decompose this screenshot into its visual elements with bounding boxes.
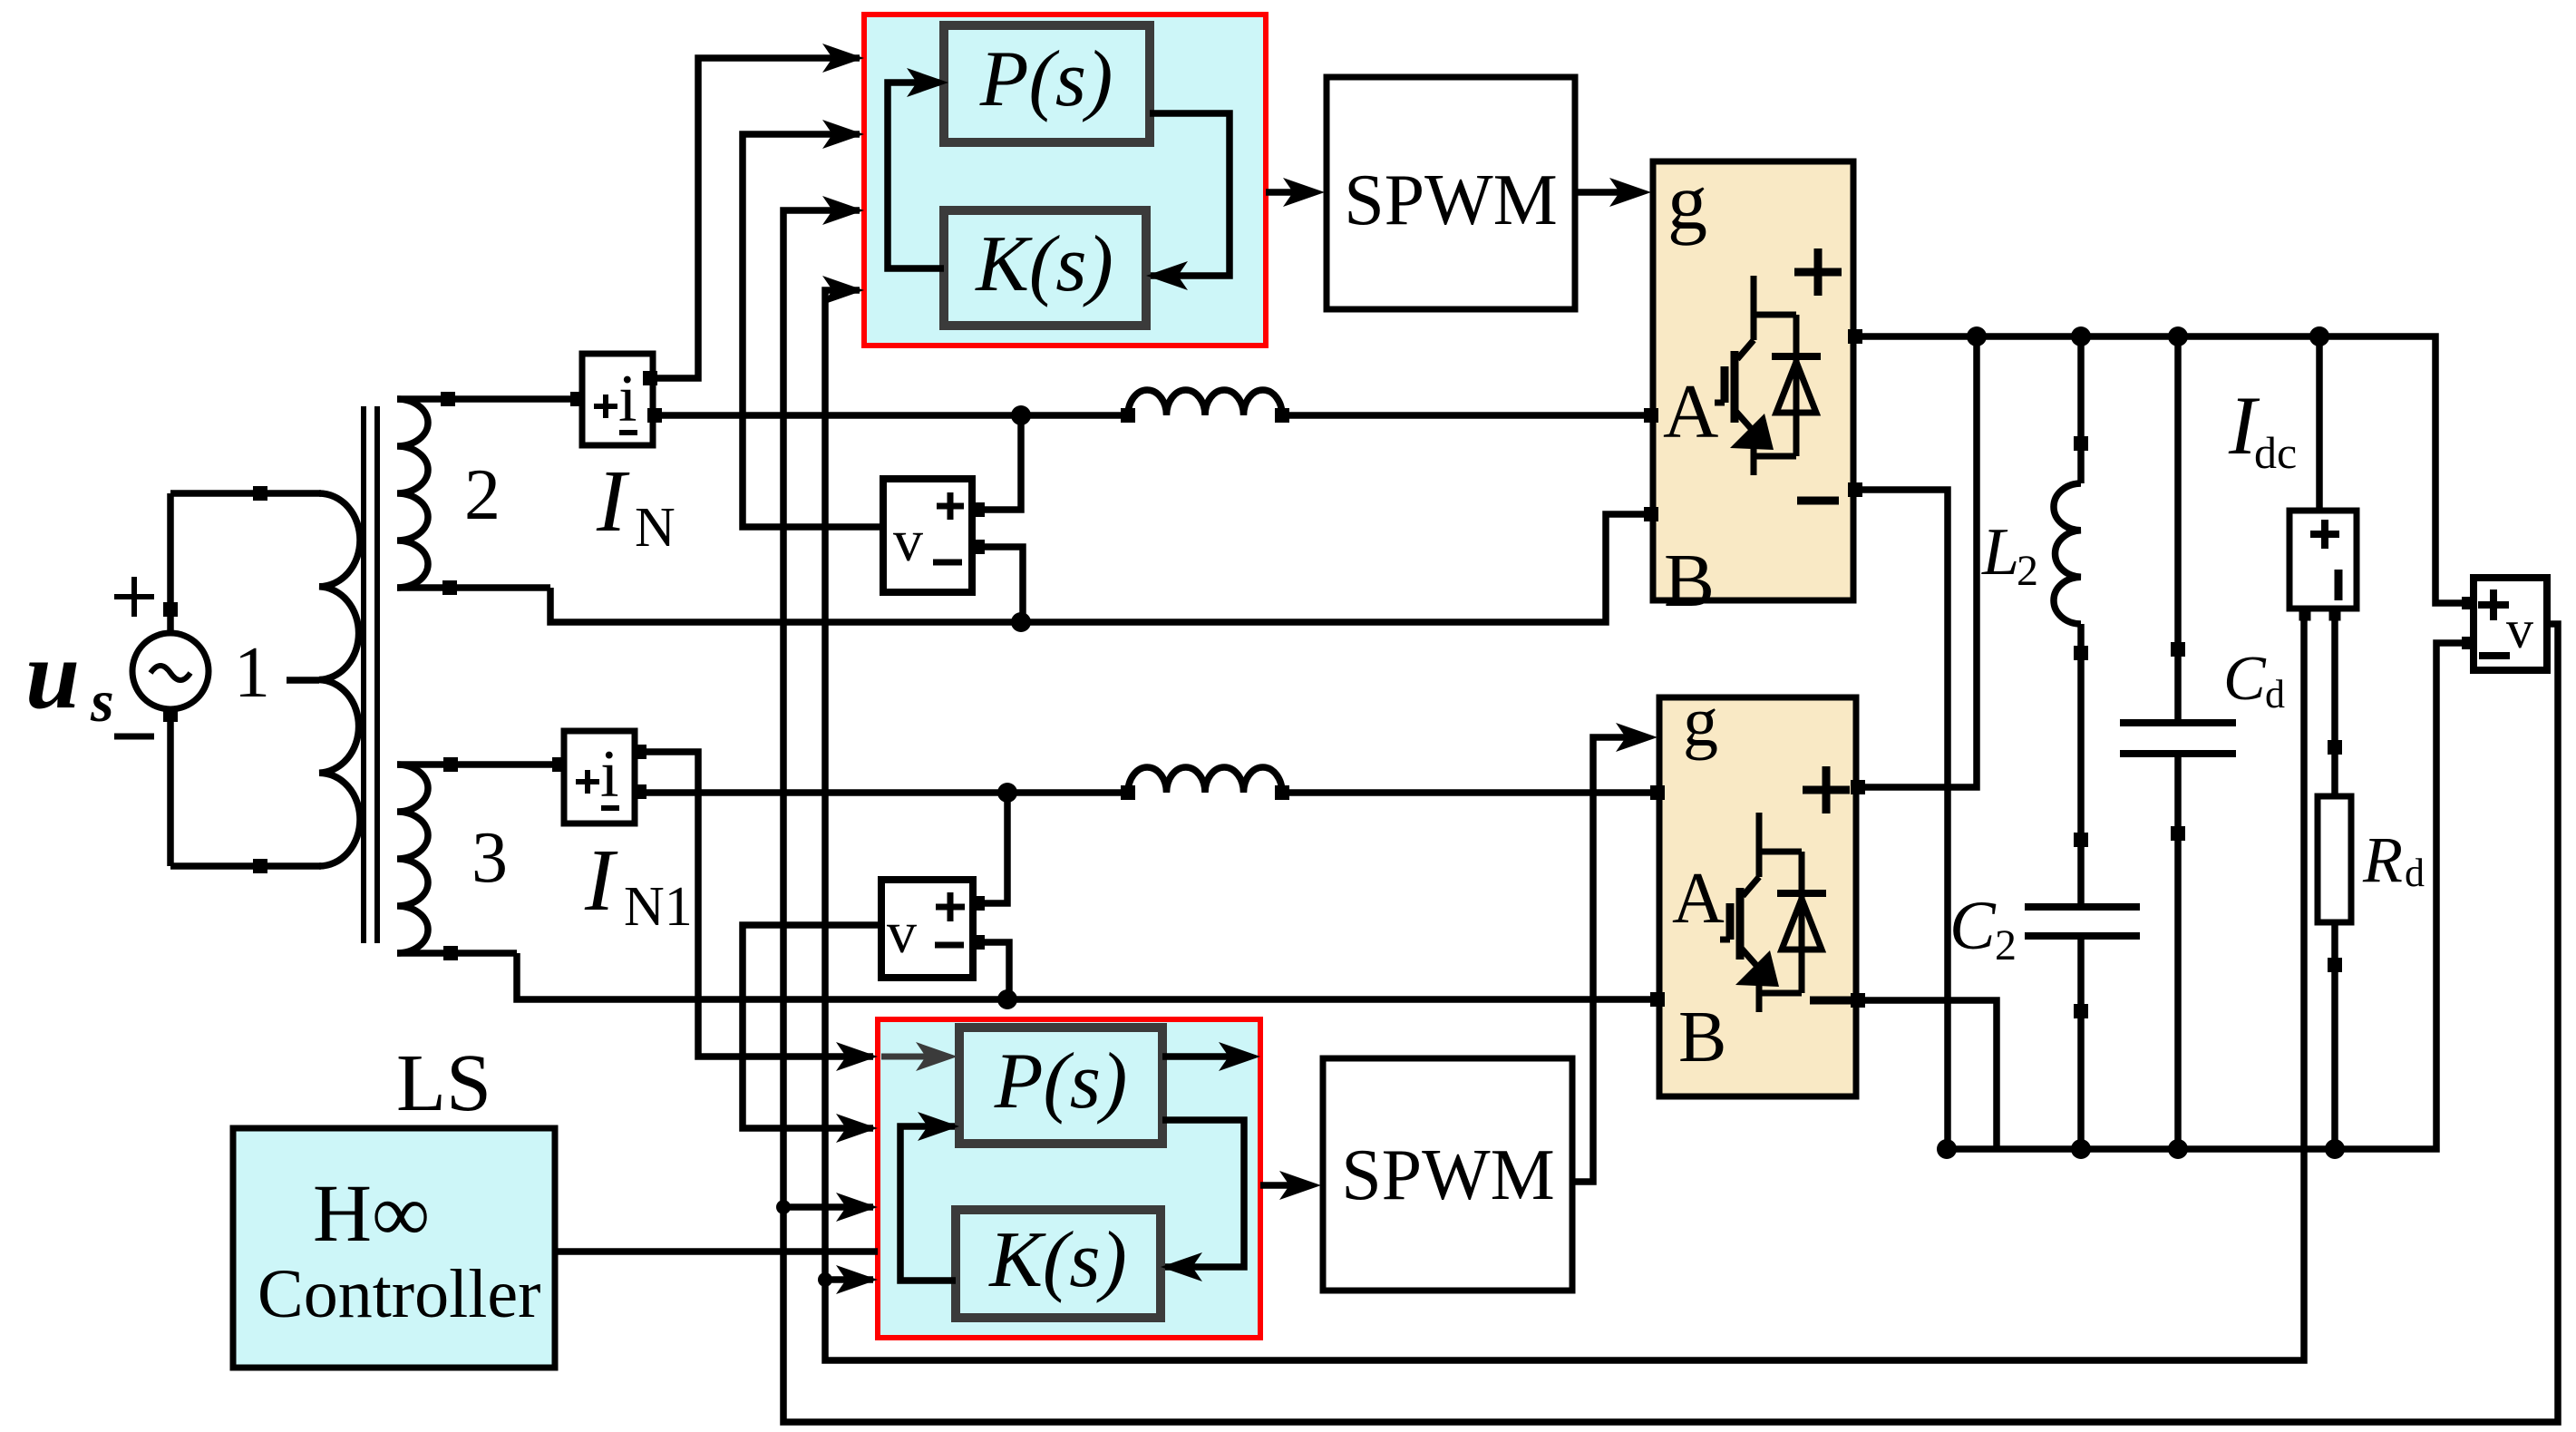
wire RS output to SPWM top — [1266, 189, 1313, 196]
arrowhead into K(s) top — [1146, 261, 1188, 290]
node Idc branch on plus bus — [2309, 326, 2329, 346]
pin square v2 plus — [970, 896, 985, 911]
voltage sensor v1 — [883, 479, 972, 592]
terminal square L1b left — [1121, 785, 1135, 800]
wire Rd bottom — [2331, 922, 2338, 1149]
wire C2 bottom — [2077, 936, 2085, 1149]
junction square winding3 bottom — [443, 946, 458, 960]
pin square vdc plus — [2462, 597, 2474, 609]
wire v1 minus tap — [972, 547, 1023, 622]
wire vdc signal to controller input 3 (both) — [783, 210, 2558, 1422]
IGBT with diode icon block 1 — [1715, 276, 1821, 475]
arrowhead into LS input 1 — [836, 1042, 878, 1071]
bar in Idc sensor — [2335, 570, 2343, 600]
pin square v1 plus — [970, 502, 985, 517]
wire winding3 bottom — [397, 950, 517, 957]
terminal square Cd top — [2171, 642, 2185, 657]
controller subsystem box RS (red/cyan, top) — [864, 15, 1266, 346]
arrowhead into RS input 1 — [822, 44, 864, 73]
wire Idc to Rd — [2331, 609, 2338, 796]
IGBT half-bridge block 2 (bottom) — [1659, 697, 1856, 1096]
current sensor IN1 — [564, 731, 635, 823]
gray arrowhead into P(s) bottom — [916, 1042, 957, 1071]
node Rd on minus bus — [2325, 1139, 2345, 1159]
wire DC minus bus to vdc minus — [1947, 643, 2470, 1149]
svg-text:P(s): P(s) — [979, 35, 1113, 123]
junction square primary bottom — [253, 859, 267, 873]
wire IN signal to controller input 1 — [653, 58, 860, 378]
AC source us — [132, 633, 209, 709]
plus label block 2 — [1803, 766, 1850, 813]
plus label block 1 — [1794, 248, 1842, 296]
svg-text:i: i — [600, 737, 619, 812]
svg-text:v: v — [2506, 599, 2533, 659]
svg-text:A: A — [1663, 369, 1718, 454]
svg-text:N: N — [635, 497, 676, 559]
arrowhead into SPWM top — [1283, 178, 1325, 207]
svg-text:u: u — [25, 621, 80, 729]
wire branch to LS input 3 — [783, 1203, 873, 1211]
IGBT half-bridge block 1 (top) — [1653, 161, 1853, 600]
controller subsystem box LS (red/cyan, bottom) — [878, 1019, 1260, 1338]
node bus left end — [1937, 1139, 1957, 1159]
wire Idc sensor top — [2316, 336, 2323, 511]
arrowhead into RS input 2 — [822, 120, 864, 149]
wire L2 to C2 — [2077, 624, 2085, 907]
wire Cd top — [2174, 336, 2182, 723]
voltage sensor vdc — [2474, 578, 2547, 670]
svg-text:2: 2 — [464, 455, 501, 535]
wire sensor IN to inductor L1a — [653, 412, 1128, 419]
svg-text:C: C — [2223, 644, 2267, 714]
wire H-infinity output to LS box — [555, 1248, 878, 1255]
svg-text:Controller: Controller — [258, 1256, 540, 1332]
svg-text:N1: N1 — [624, 876, 693, 938]
minus label block 2 — [1810, 997, 1852, 1005]
node v2 minus junction — [997, 989, 1017, 1009]
transformer core — [361, 406, 366, 943]
terminal square L1b right — [1275, 785, 1289, 800]
node v1 minus junction — [1011, 612, 1031, 632]
svg-text:R: R — [2362, 823, 2403, 896]
arrowhead into SPWM bottom — [1279, 1171, 1321, 1200]
junction square winding2 top — [441, 392, 455, 406]
svg-text:I: I — [596, 453, 630, 550]
block SPWM bottom — [1323, 1058, 1572, 1291]
wire Cd bottom — [2174, 754, 2182, 1149]
arrowhead into g block 1 — [1609, 178, 1651, 207]
transformer secondary winding 2 — [397, 399, 428, 588]
pin square vdc minus — [2462, 637, 2474, 649]
wire IN1 signal to controller input 1 bottom — [635, 752, 873, 1057]
block P(s) top — [944, 25, 1150, 142]
svg-text:2: 2 — [2017, 547, 2038, 595]
terminal square L1a left — [1121, 408, 1135, 423]
node bus Idc — [2309, 326, 2329, 346]
pin square sensor IN out — [647, 408, 662, 423]
wire block2 plus to DC plus bus — [1856, 336, 1977, 787]
pin square A block 2 — [1650, 785, 1665, 800]
junction square winding3 top — [443, 757, 458, 772]
node Cd on minus bus — [2168, 1139, 2188, 1159]
svg-text:i: i — [618, 362, 637, 436]
junction square winding2 bottom — [442, 580, 457, 595]
arrowhead P(s) bottom output at box edge — [1219, 1042, 1260, 1071]
current sensor IN — [582, 354, 653, 445]
pin square Idc out left — [2299, 609, 2311, 621]
arrowhead into g block 2 — [1616, 723, 1657, 752]
junction square primary top — [253, 486, 267, 501]
inductor L1b — [1128, 767, 1282, 793]
node v2 plus tap — [997, 783, 1017, 803]
wire v2 plus tap — [973, 793, 1007, 903]
terminal square C2 top — [2074, 833, 2088, 847]
H-infinity controller block — [233, 1128, 555, 1368]
inductor L2 — [2054, 483, 2081, 624]
wire LS output to SPWM bottom — [1260, 1182, 1309, 1189]
terminal square Cd bottom — [2171, 826, 2185, 841]
wire K(s) to P(s) feedback bottom — [900, 1126, 956, 1281]
node L2 branch on plus bus — [2071, 326, 2091, 346]
wire SPWM bottom to g of block 2 — [1572, 737, 1647, 1182]
svg-text:∞: ∞ — [372, 1169, 430, 1259]
wire v2 minus tap — [973, 942, 1009, 999]
minus terminal of us — [114, 734, 154, 740]
svg-text:SPWM: SPWM — [1344, 161, 1558, 240]
svg-text:K(s): K(s) — [987, 1216, 1127, 1304]
arrowhead into RS input 3 — [822, 196, 864, 225]
wire winding3 top to sensor IN1 — [397, 761, 560, 768]
pin square A block 1 — [1644, 408, 1658, 423]
wire P(s) to K(s) bottom — [1162, 1120, 1244, 1267]
wire K(s) to P(s) feedback top — [888, 83, 944, 268]
wire v1 plus tap — [972, 415, 1021, 510]
terminal square us plus — [163, 602, 178, 617]
capacitor C2 — [2025, 903, 2140, 911]
pin square plus block 2 — [1851, 780, 1865, 794]
wire L2 top — [2077, 336, 2085, 483]
arrowhead into LS input 3 — [836, 1193, 878, 1222]
transformer primary winding 1 — [319, 493, 360, 866]
node Cd branch on plus bus — [2168, 326, 2188, 346]
wire winding2 top to sensor IN — [397, 395, 578, 403]
svg-text:2: 2 — [1995, 921, 2017, 969]
svg-text:L: L — [1981, 515, 2019, 589]
voltage sensor v2 — [881, 880, 973, 978]
svg-text:C: C — [1949, 888, 1997, 964]
block K(s) top — [944, 210, 1146, 326]
node C2 on minus bus — [2071, 1139, 2091, 1159]
wire winding3 return to B pin block 2 — [517, 953, 1659, 999]
pin square minus block 1 — [1848, 482, 1862, 497]
wire us minus lead — [167, 707, 174, 866]
wire v1 output to controller input 2 — [743, 134, 883, 527]
capacitor Cd — [2120, 719, 2236, 726]
pin square B block 2 — [1650, 992, 1665, 1007]
block P(s) bottom — [959, 1028, 1162, 1144]
svg-text:d: d — [2405, 851, 2425, 895]
terminal square Rd top — [2328, 740, 2342, 755]
svg-text:s: s — [90, 668, 114, 735]
svg-text:v: v — [887, 900, 917, 966]
node branch LS input 4 — [818, 1272, 832, 1287]
svg-text:I: I — [584, 832, 618, 930]
wire P(s) bottom output — [1162, 1053, 1248, 1060]
terminal square C2 bottom — [2074, 1004, 2088, 1018]
arrowhead into P(s) top — [907, 68, 948, 97]
node branch LS input 3 — [776, 1200, 791, 1214]
svg-text:3: 3 — [471, 818, 508, 898]
svg-text:LS: LS — [396, 1038, 491, 1128]
arrowhead into P(s) bottom feedback — [918, 1112, 959, 1141]
wire branch to LS input 4 — [825, 1276, 873, 1283]
svg-text:d: d — [2265, 672, 2285, 716]
wire primary bottom — [170, 862, 321, 870]
svg-text:g: g — [1683, 682, 1718, 761]
arrowhead into RS input 4 — [822, 276, 864, 305]
pin square minus block 2 — [1851, 993, 1865, 1008]
svg-text:H: H — [313, 1169, 372, 1259]
wire L1a to A pin of block 1 — [1282, 412, 1653, 419]
terminal square L2 bottom — [2074, 646, 2088, 660]
svg-text:SPWM: SPWM — [1341, 1135, 1555, 1215]
block K(s) bottom — [956, 1210, 1161, 1318]
wire v2 output to controller input 2 bottom — [743, 925, 881, 1128]
wire gray into P(s) bottom — [881, 1054, 943, 1060]
resistor Rd — [2318, 796, 2351, 922]
wire Idc signal to controller input 4 (both) — [825, 290, 2304, 1360]
pin square v2 minus — [970, 935, 985, 950]
wire SPWM top to g of block 1 — [1575, 189, 1639, 196]
node v1 plus tap — [1011, 405, 1031, 425]
arrowhead into K(s) bottom — [1161, 1252, 1202, 1281]
transformer secondary winding 3 — [397, 765, 428, 953]
terminal square Rd bottom — [2328, 958, 2342, 972]
IGBT with diode icon block 2 — [1720, 813, 1826, 1012]
wire P(s) to K(s) top — [1150, 113, 1230, 276]
wire DC plus bus to vdc plus — [1853, 336, 2470, 603]
pin square plus block 1 — [1848, 329, 1862, 344]
svg-text:B: B — [1678, 998, 1726, 1077]
svg-text:P(s): P(s) — [994, 1037, 1128, 1125]
wire block2 minus to DC minus bus — [1856, 1000, 1997, 1149]
pin square sensor IN left — [570, 392, 585, 406]
pin square sensor IN1 left — [552, 757, 567, 772]
inductor L1a — [1128, 390, 1282, 415]
svg-text:K(s): K(s) — [974, 220, 1113, 308]
pin square B block 1 — [1644, 507, 1658, 521]
wire us plus lead — [167, 493, 174, 635]
wire sensor IN1 to inductor L1b — [635, 789, 1128, 796]
node block2 plus on bus — [1967, 326, 1987, 346]
pin square sensor IN signal — [643, 371, 657, 385]
arrowhead into LS input 4 — [836, 1265, 878, 1294]
pin square sensor IN1 out — [632, 784, 646, 799]
current sensor Idc — [2289, 511, 2357, 609]
wire winding2 bottom — [397, 584, 550, 591]
svg-text:dc: dc — [2254, 427, 2297, 478]
pin square v1 minus — [970, 540, 985, 554]
svg-text:1: 1 — [234, 633, 270, 713]
svg-text:A: A — [1672, 859, 1725, 939]
wire L1b to A pin of block 2 — [1282, 789, 1659, 796]
wire block1 minus down — [1853, 490, 1948, 1149]
block SPWM top — [1327, 77, 1575, 309]
pin square sensor IN1 signal — [632, 745, 646, 759]
wire winding2 return to B pin block 1 — [550, 514, 1653, 622]
wire primary center tap stub — [287, 677, 319, 684]
arrowhead into LS input 2 — [836, 1114, 878, 1143]
terminal square L1a right — [1275, 408, 1289, 423]
terminal square us minus — [163, 707, 178, 722]
terminal square L2 top — [2074, 436, 2088, 451]
minus label block 1 — [1797, 497, 1839, 505]
wire primary top — [170, 490, 321, 497]
pin square Idc out right — [2329, 609, 2341, 621]
svg-text:g: g — [1667, 159, 1707, 247]
svg-text:v: v — [893, 508, 923, 574]
plus terminal of us — [114, 577, 154, 617]
svg-text:B: B — [1664, 539, 1715, 623]
